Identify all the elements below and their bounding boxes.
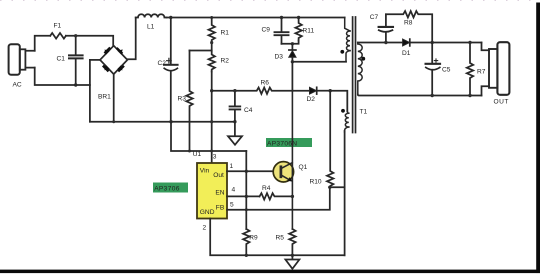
wire R9 column [245, 151, 247, 229]
capacitor C4 [230, 91, 253, 122]
capacitor C7 [370, 14, 393, 43]
ground below C4 [228, 122, 242, 145]
junction pin4 node [245, 195, 248, 198]
IC U1 [193, 151, 236, 232]
junction node R2/R6/pin3 [210, 89, 213, 92]
svg-text:U1: U1 [193, 151, 202, 158]
wire R2 to wire A junction [211, 72, 213, 91]
junction C4 top [233, 89, 236, 92]
wire BR1 bottom to common [113, 74, 115, 122]
resistor R11 [295, 18, 314, 41]
resistor R3 [178, 51, 193, 152]
junction C1 bottom [74, 83, 77, 86]
junction R4 emitter node [291, 195, 294, 198]
wire common drop left [89, 60, 91, 122]
wire pin3 column [211, 91, 213, 163]
svg-text:R8: R8 [404, 20, 413, 27]
diode D2 [292, 87, 330, 103]
resistor R6 [212, 80, 293, 94]
svg-text:C7: C7 [370, 14, 379, 21]
svg-text:F1: F1 [54, 23, 62, 30]
wire aux winding down [344, 131, 346, 255]
wire pin1 out to Q1 base [227, 170, 281, 172]
svg-text:D3: D3 [275, 54, 284, 61]
svg-text:R9: R9 [249, 235, 258, 242]
junction common pin3 [210, 120, 213, 123]
svg-text:5: 5 [230, 202, 234, 209]
junction C1 top [74, 34, 77, 37]
svg-text:R3: R3 [178, 96, 187, 103]
junction D2 R10 [329, 89, 332, 92]
svg-text:Out: Out [213, 172, 224, 179]
inductor L1 [136, 14, 167, 30]
svg-text:AP3706: AP3706 [154, 186, 180, 193]
junction snubber D3 cathode [291, 42, 294, 45]
svg-text:BR1: BR1 [98, 94, 111, 101]
wire pin4 R4 line [227, 195, 260, 197]
wire top rail [167, 17, 345, 19]
svg-text:R6: R6 [261, 80, 270, 87]
resistor R1 [209, 18, 230, 43]
capacitor C8 [426, 43, 451, 96]
svg-text:FB: FB [216, 205, 225, 212]
ground below R5 [285, 255, 299, 268]
svg-text:Vin: Vin [200, 167, 210, 174]
wire to aux winding [330, 91, 347, 112]
svg-text:R5: R5 [276, 235, 285, 242]
svg-text:C9: C9 [262, 27, 271, 34]
svg-text:L1: L1 [147, 24, 155, 31]
wire pin2 to bottom rail [210, 219, 344, 256]
junction C5 bottom [431, 94, 434, 97]
wire F1 to BR1 top [66, 36, 113, 46]
svg-text:3: 3 [213, 154, 217, 161]
label AP3706 green [153, 183, 188, 193]
junction R7 top [468, 41, 471, 44]
capacitor C1 [57, 36, 83, 85]
junction R10 bottom [328, 186, 331, 189]
junction pin1 node [245, 170, 248, 173]
svg-text:C4: C4 [244, 107, 253, 114]
junction rail R9 [245, 254, 248, 257]
junction C7 bottom [384, 41, 387, 44]
junction common C2 [169, 120, 172, 123]
junction common BR1 [112, 120, 115, 123]
svg-text:T1: T1 [360, 109, 368, 116]
junction net3 R3 [188, 150, 191, 153]
resistor R2 [209, 51, 230, 72]
wire BR1 left corner [90, 59, 100, 61]
wire D3 to primary bottom [292, 61, 346, 63]
junction R1 bottom [210, 41, 213, 44]
svg-text:EN: EN [215, 190, 224, 197]
svg-text:4: 4 [232, 187, 236, 194]
svg-text:C1: C1 [57, 56, 66, 63]
diode D3 [275, 44, 297, 62]
junction common C4 [233, 120, 236, 123]
junction rail R1 [210, 16, 213, 19]
label AP3706N green [266, 138, 312, 148]
wire pin5 FB [227, 187, 330, 210]
wire AC top to F1 [35, 36, 51, 51]
svg-text:R2: R2 [221, 58, 230, 65]
svg-text:OUT: OUT [494, 98, 509, 105]
connector AC [9, 44, 35, 88]
svg-text:R11: R11 [303, 28, 315, 35]
wire R10 to aux column [330, 186, 345, 188]
wire snubber bottom [282, 41, 299, 44]
wire BR1 right to L1 [127, 18, 135, 60]
junction rail C9 [280, 16, 283, 19]
resistor R4 [260, 185, 293, 199]
connector OUT [482, 42, 510, 105]
svg-text:R7: R7 [477, 69, 486, 76]
capacitor C2 [158, 18, 178, 122]
wire net3 horizontal [171, 122, 246, 151]
wire collector column [291, 62, 293, 91]
junction D3 anode node [291, 60, 294, 63]
wire AC bottom [35, 68, 90, 85]
svg-text:R4: R4 [262, 185, 271, 192]
transformer T1 [340, 17, 367, 133]
svg-text:R1: R1 [221, 30, 230, 37]
resistor R8 [386, 11, 432, 42]
junction rail C2 [169, 16, 172, 19]
wire secondary bottom [358, 94, 482, 97]
bridge rectifier BR1 [98, 46, 127, 101]
resistor R5 [276, 229, 296, 255]
svg-text:D1: D1 [402, 50, 411, 57]
svg-text:Q1: Q1 [299, 164, 308, 171]
svg-text:C2: C2 [158, 60, 167, 67]
wire secondary top [358, 42, 482, 44]
fuse F1 [50, 23, 66, 39]
junction rail R5 [291, 254, 294, 257]
junction R8/C5 top [431, 41, 434, 44]
svg-text:D2: D2 [307, 96, 316, 103]
capacitor C9 [262, 18, 289, 44]
diode D1 [402, 39, 411, 57]
transistor Q1 [273, 91, 307, 229]
wire common B [90, 121, 235, 123]
svg-text:2: 2 [203, 225, 207, 232]
svg-text:R10: R10 [310, 179, 322, 186]
junction net3 pin3 [210, 150, 213, 153]
resistor R9 [243, 229, 258, 255]
junction rail R11 [297, 16, 300, 19]
svg-text:1: 1 [230, 163, 234, 170]
junction pin5 crossing [245, 208, 248, 211]
resistor R7 [467, 43, 486, 96]
svg-text:GND: GND [200, 209, 215, 216]
wire R1 R2 tap [190, 42, 212, 51]
svg-text:C5: C5 [442, 67, 451, 74]
resistor R10 [310, 91, 334, 187]
junction R7 bottom [468, 94, 471, 97]
svg-text:AC: AC [13, 82, 22, 89]
